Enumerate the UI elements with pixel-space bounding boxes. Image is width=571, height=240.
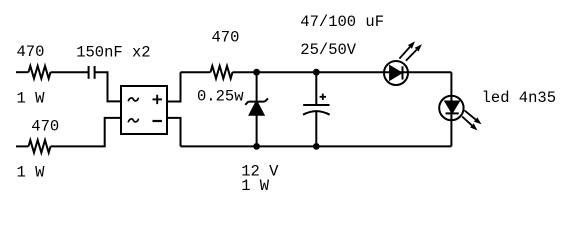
wire top-left input lead bbox=[16, 71, 29, 73]
wire right vertical bbox=[450, 72, 452, 146]
svg-text:1 W: 1 W bbox=[17, 163, 46, 181]
svg-text:led 4n35: led 4n35 bbox=[482, 89, 556, 107]
zener diode D1 12V 1W bbox=[245, 72, 268, 146]
bridge - glyph bbox=[153, 120, 162, 122]
bridge ~ lower glyph bbox=[128, 119, 138, 123]
wire R1 to C1 bbox=[51, 71, 89, 73]
svg-text:470: 470 bbox=[212, 28, 240, 46]
node capacitor bottom junction bbox=[313, 143, 320, 150]
svg-text:470: 470 bbox=[31, 118, 59, 136]
node zener top junction bbox=[253, 69, 260, 76]
wire bottom rail bbox=[181, 145, 452, 147]
node capacitor top junction bbox=[313, 69, 320, 76]
bridge ~ upper glyph bbox=[128, 98, 138, 102]
resistor R3 470 0.25w bbox=[211, 66, 233, 79]
svg-text:47/100 uF: 47/100 uF bbox=[300, 13, 384, 31]
svg-text:470: 470 bbox=[17, 43, 45, 61]
LED D3 4n35 (right, emitting down-right) bbox=[439, 96, 481, 131]
bridge rectifier U1 box bbox=[121, 86, 167, 134]
wire bottom-left input lead bbox=[16, 145, 29, 147]
wire top rail to right corner bbox=[233, 71, 452, 73]
svg-text:0.25w: 0.25w bbox=[197, 88, 244, 106]
svg-text:150nF x2: 150nF x2 bbox=[76, 44, 150, 62]
capacitor C1 150nF x2 bbox=[89, 66, 95, 79]
svg-text:1 W: 1 W bbox=[17, 89, 46, 107]
capacitor C2 47/100uF electrolytic bbox=[303, 72, 330, 146]
wire C1 to bridge upper input bbox=[95, 72, 121, 101]
LED D2 (top, emitting up-right) bbox=[384, 41, 422, 85]
resistor R2 470 1W (bottom-left) bbox=[29, 140, 51, 153]
resistor R1 470 1W (top-left) bbox=[29, 66, 51, 79]
wire bridge - output to bottom rail bbox=[167, 118, 181, 146]
svg-text:25/50V: 25/50V bbox=[300, 41, 357, 59]
bridge + glyph bbox=[153, 95, 162, 104]
node zener bottom junction bbox=[253, 143, 260, 150]
svg-text:1 W: 1 W bbox=[241, 177, 270, 195]
wire top rail left segment bbox=[181, 71, 211, 73]
wire bridge + output to top rail bbox=[167, 72, 181, 101]
wire R2 to bridge lower input bbox=[51, 118, 122, 146]
